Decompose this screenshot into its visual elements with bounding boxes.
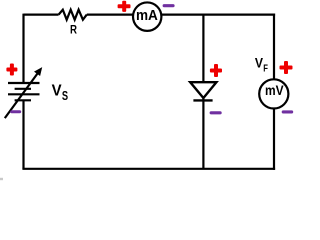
polarity - at battery (purple) bbox=[10, 110, 21, 113]
svg-text:mA: mA bbox=[136, 7, 158, 23]
variable-source arrow through battery bbox=[5, 67, 42, 118]
svg-text:mV: mV bbox=[265, 82, 284, 98]
polarity - at ammeter (purple) bbox=[163, 4, 175, 7]
polarity - at voltmeter (purple) bbox=[282, 110, 294, 113]
wire ammeter to top-right corner bbox=[161, 14, 275, 16]
polarity + at battery (red) bbox=[6, 64, 17, 76]
stray grey mark bottom-left bbox=[0, 178, 3, 180]
wire diode branch vertical lower (diode to bottom wire) bbox=[202, 98, 204, 169]
svg-text:F: F bbox=[263, 63, 268, 74]
svg-text:R: R bbox=[70, 24, 77, 37]
diode D1 triangle bbox=[190, 82, 216, 98]
polarity + at diode (red) bbox=[210, 64, 222, 77]
resistor R bbox=[59, 10, 87, 20]
wire top-left horizontal segment bbox=[24, 14, 59, 16]
diode D1 cathode bar bbox=[193, 99, 212, 101]
bottom wire bbox=[22, 168, 275, 170]
svg-text:S: S bbox=[62, 90, 68, 104]
battery source VS: long plate 1 bbox=[8, 82, 40, 84]
battery source VS: short plate 2 bbox=[15, 99, 31, 101]
wire diode branch vertical upper (top wire to diode) bbox=[202, 15, 204, 83]
ammeter U1 circle (mA) bbox=[133, 2, 161, 30]
wire left vertical upper (corner to battery) bbox=[22, 14, 24, 83]
svg-text:V: V bbox=[255, 55, 264, 71]
wire right vertical lower (voltmeter to bottom corner) bbox=[273, 107, 275, 169]
polarity - at diode (purple) bbox=[210, 111, 222, 114]
battery source VS: short plate 1 bbox=[15, 88, 31, 90]
wire resistor to ammeter bbox=[87, 14, 134, 16]
battery source VS: long plate 2 bbox=[8, 93, 40, 95]
polarity + at voltmeter (red) bbox=[280, 61, 293, 74]
wire left vertical lower (battery to bottom corner) bbox=[22, 100, 24, 169]
svg-text:V: V bbox=[52, 82, 63, 99]
polarity + at ammeter (red) bbox=[118, 1, 131, 12]
voltmeter U2 circle (mV) bbox=[259, 79, 288, 108]
wire right vertical upper (corner to voltmeter) bbox=[273, 14, 275, 81]
